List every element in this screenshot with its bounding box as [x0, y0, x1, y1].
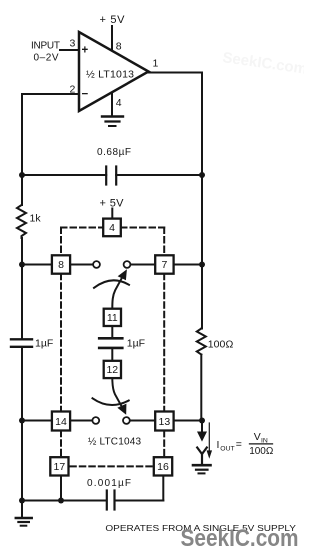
- svg-text:14: 14: [55, 416, 67, 428]
- fraction bar: [250, 443, 273, 445]
- pin box 12: [104, 361, 121, 378]
- svg-text:+: +: [82, 45, 89, 57]
- wire row pin14-pin13: [22, 420, 52, 422]
- switch contact circle S1a: [93, 261, 100, 268]
- switch S1 wiper arm: [112, 277, 122, 309]
- svg-text:8: 8: [58, 259, 64, 271]
- capacitor C1 0.68uF feedback: [22, 174, 106, 176]
- op-amp U1 triangle: [79, 32, 149, 111]
- switch contact circle S2b: [123, 417, 130, 424]
- resistor R1 1k: [17, 205, 26, 238]
- wire pin8 supply: [111, 26, 113, 51]
- capacitor C2 1uF (left, series): [11, 338, 32, 340]
- node dot left rail / pin8 row: [19, 262, 25, 268]
- wire op-amp output to right rail: [149, 73, 203, 176]
- svg-text:SeekIC.com: SeekIC.com: [181, 525, 299, 552]
- node dot right rail / pin13 row: [199, 418, 205, 424]
- svg-text:1k: 1k: [30, 213, 42, 225]
- switch S2 arc: [93, 398, 129, 405]
- wire bottom row left: [22, 500, 106, 502]
- wire +5V to pin 4 box: [111, 209, 113, 219]
- svg-text:0.68µF: 0.68µF: [97, 147, 131, 158]
- svg-text:0.001µF: 0.001µF: [87, 478, 131, 489]
- resistor R2 100 ohm: [197, 329, 206, 355]
- wire left rail top: [21, 94, 23, 205]
- node dot left rail / pin14 row: [19, 418, 25, 424]
- pin box 13: [155, 412, 173, 431]
- svg-text:1µF: 1µF: [127, 338, 145, 350]
- node A dot left rail / C1: [19, 172, 25, 178]
- wire box11 to C3: [111, 326, 113, 338]
- svg-text:4: 4: [116, 97, 122, 109]
- svg-text:11: 11: [107, 312, 118, 324]
- ground bottom-left: [16, 517, 32, 520]
- svg-text:0–2V: 0–2V: [34, 53, 59, 64]
- node dot left rail / bottom row: [19, 498, 25, 504]
- dashed outline LTC1043 bottom: [70, 465, 153, 467]
- svg-text:IN: IN: [261, 437, 268, 444]
- pin box 8: [52, 255, 70, 273]
- svg-text:3: 3: [70, 38, 76, 50]
- capacitor C3 1uF (flying): [99, 337, 122, 340]
- dashed outline LTC1043 left: [60, 274, 62, 412]
- pin box 4: [103, 219, 121, 237]
- svg-text:100Ω: 100Ω: [249, 446, 274, 457]
- node dot bottom row / box17 column: [58, 498, 64, 504]
- wire left rail mid: [21, 238, 24, 339]
- switch contact circle S1b: [124, 261, 131, 268]
- wire bottom row right: [115, 500, 164, 502]
- svg-text:1µF: 1µF: [35, 338, 53, 350]
- svg-text:V: V: [254, 431, 261, 443]
- pin box 16: [154, 457, 172, 475]
- pin box 17: [50, 457, 68, 475]
- pin box 14: [52, 412, 70, 431]
- svg-text:=: =: [236, 439, 242, 451]
- svg-text:2: 2: [70, 84, 76, 96]
- svg-text:7: 7: [161, 259, 167, 271]
- svg-text:−: −: [82, 89, 89, 101]
- IOUT indicator arrow: [208, 423, 210, 452]
- pin box 11: [104, 309, 121, 326]
- wire left rail lower: [21, 348, 23, 518]
- svg-text:+ 5V: + 5V: [100, 14, 126, 26]
- wire C3 to box12: [111, 348, 113, 361]
- switch contact circle S2a: [92, 417, 99, 424]
- wire right rail upper: [201, 175, 203, 329]
- svg-text:INPUT: INPUT: [31, 41, 60, 52]
- node dot right rail / pin7 row: [199, 262, 205, 268]
- pin box 7: [155, 255, 173, 273]
- svg-text:I: I: [217, 439, 220, 451]
- svg-text:100Ω: 100Ω: [208, 339, 234, 351]
- dashed outline LTC1043 right: [163, 274, 165, 412]
- svg-text:8: 8: [116, 41, 122, 53]
- ground op-amp: [102, 115, 123, 117]
- switch S2 wiper arm: [112, 378, 121, 406]
- svg-text:4: 4: [109, 222, 115, 234]
- svg-text:16: 16: [157, 461, 169, 473]
- wire pin4 to ground: [111, 93, 113, 117]
- svg-text:½ LTC1043: ½ LTC1043: [88, 437, 141, 448]
- node dot right rail / C1: [199, 172, 205, 178]
- output current arrow: [201, 421, 203, 433]
- pin box numbers: [54, 222, 171, 473]
- wire pin3 input stub: [60, 49, 79, 51]
- wire row pin8-pin7: [22, 264, 52, 266]
- svg-text:1: 1: [153, 58, 159, 70]
- svg-text:+ 5V: + 5V: [100, 198, 125, 210]
- svg-text:13: 13: [159, 416, 171, 428]
- wire box17 down: [60, 476, 62, 501]
- wire box16 down: [162, 476, 164, 501]
- capacitor C4 0.001uF: [106, 491, 108, 510]
- pin boxes of LTC1043: [50, 219, 173, 476]
- svg-text:OUT: OUT: [220, 446, 234, 453]
- dashed outline LTC1043 top: [61, 227, 103, 229]
- wire pin2 inverting input: [22, 93, 79, 95]
- svg-text:12: 12: [106, 364, 118, 376]
- svg-text:17: 17: [54, 461, 66, 473]
- svg-text:½ LT1013: ½ LT1013: [86, 69, 134, 81]
- ground output: [197, 448, 207, 455]
- switch S1 arc: [94, 280, 129, 287]
